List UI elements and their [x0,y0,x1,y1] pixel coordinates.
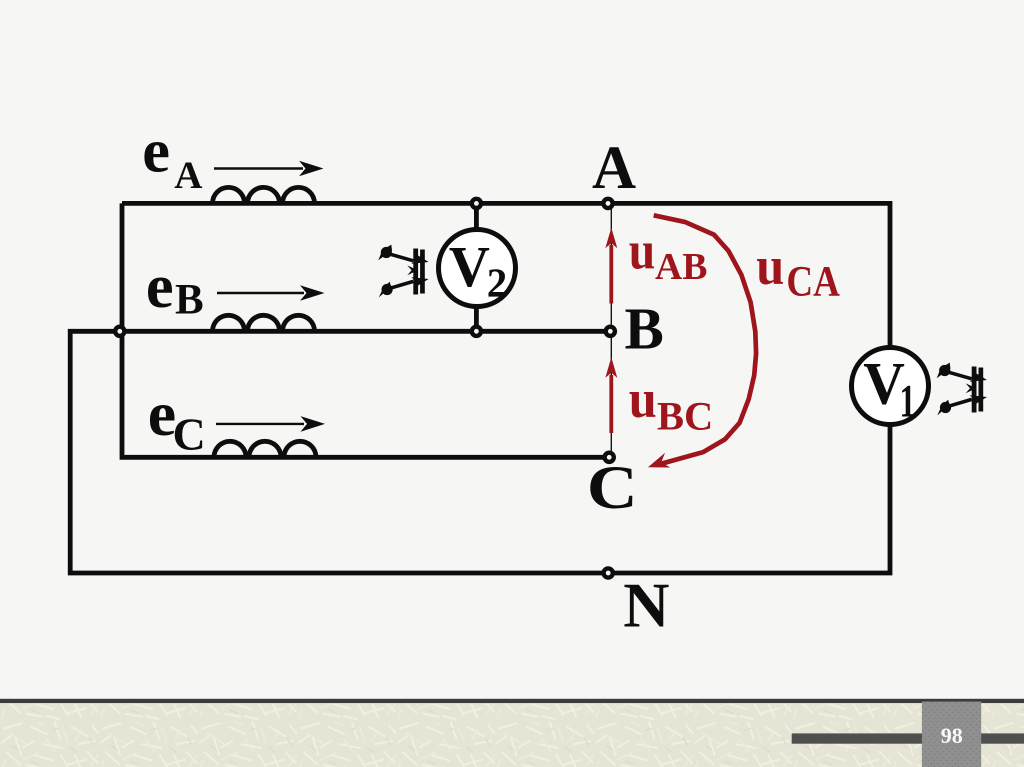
svg-text:C: C [587,455,638,522]
svg-text:C: C [173,408,206,459]
svg-text:1: 1 [900,375,916,427]
svg-text:A: A [592,135,636,202]
svg-text:A: A [174,154,202,197]
svg-text:u: u [629,369,657,429]
svg-text:N: N [623,570,669,641]
svg-text:e: e [146,251,174,321]
svg-text:u: u [756,236,784,296]
svg-text:CA: CA [786,258,840,305]
svg-text:V: V [449,234,490,299]
svg-text:B: B [625,296,664,362]
svg-text:AB: AB [655,246,708,288]
svg-text:98: 98 [941,723,963,748]
svg-text:BC: BC [657,394,713,439]
svg-text:e: e [142,115,170,185]
svg-text:2: 2 [487,260,508,306]
svg-text:B: B [175,276,204,323]
svg-text:u: u [629,221,656,281]
